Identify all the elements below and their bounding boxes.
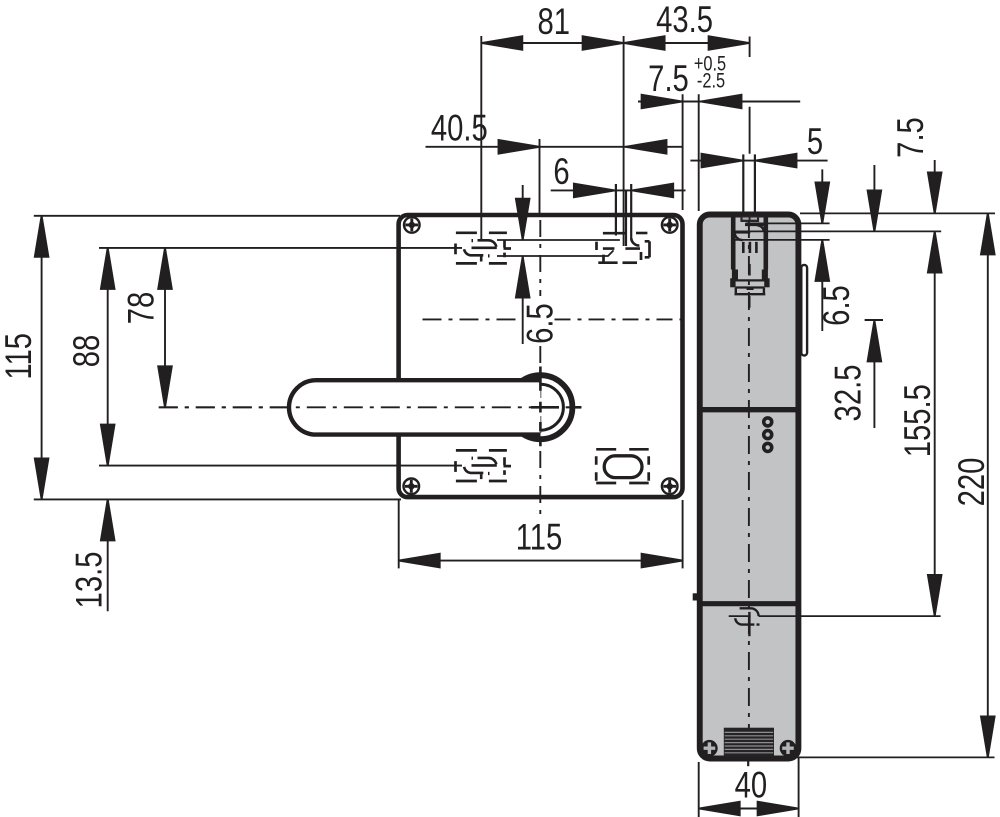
ext side top edge right	[800, 212, 995, 214]
hole symbol top-left : slot	[464, 240, 497, 261]
arrow 40 right	[758, 802, 799, 816]
svg-text:78: 78	[121, 292, 162, 325]
knob center marks	[539, 367, 542, 447]
label 5	[807, 122, 823, 163]
label -2.5	[697, 69, 725, 92]
ext 115 top	[34, 215, 400, 217]
arrow 81 right	[583, 36, 624, 50]
svg-text:6: 6	[553, 151, 569, 192]
screw top-right	[662, 217, 678, 233]
SIDE-VIEW	[693, 215, 807, 759]
dim 7.5 tol line	[638, 101, 800, 103]
hole symbol top-left : cross	[454, 244, 457, 255]
left catch tick	[693, 593, 699, 600]
ext line side-plug-center	[749, 37, 751, 154]
arrow 115 bottom	[35, 458, 49, 499]
three indicator dots	[764, 418, 772, 426]
arrow 40.5 right	[626, 140, 667, 154]
ext 88/78 top	[99, 247, 462, 249]
arrow 5 left	[702, 154, 743, 168]
svg-text:115: 115	[0, 333, 40, 380]
dim 88 line	[107, 247, 109, 466]
arrow 115b left	[399, 554, 440, 568]
dim 81/43.5 line	[481, 42, 749, 44]
arrow 43.5 left	[624, 36, 665, 50]
side centerline	[748, 220, 750, 754]
section divider lower	[700, 601, 798, 606]
arrow 40 left	[699, 802, 740, 816]
section divider upper	[700, 407, 798, 412]
svg-text:6.5: 6.5	[817, 285, 858, 326]
plug arc right	[757, 225, 764, 231]
svg-text:7.5: 7.5	[648, 59, 689, 100]
hole symbol bottom-left : dashed outline	[456, 450, 507, 481]
label 40.5	[431, 108, 488, 149]
arrow 6.5r down	[816, 182, 830, 223]
arrow 5 right	[756, 154, 797, 168]
knob outer circle	[508, 375, 572, 439]
arrow 6 left	[574, 184, 615, 198]
arrow 6.5f down	[516, 199, 530, 240]
svg-text:43.5: 43.5	[656, 0, 713, 41]
plate outline	[399, 215, 683, 497]
label 7.5 right	[891, 117, 932, 158]
dim 6.5 front line	[522, 185, 524, 344]
actuator slot cluster top-right : verticals	[615, 184, 617, 236]
label 6.5 right	[817, 285, 858, 326]
right tab	[801, 265, 807, 356]
ext plug wires	[742, 154, 744, 216]
plug line mid-left	[735, 232, 750, 234]
tick 32.5 bottom	[865, 319, 883, 321]
arrow 6 right	[632, 184, 673, 198]
screw bottom-left	[404, 479, 420, 495]
label 13.5	[69, 552, 110, 609]
arrow 7.5r/155.5 up	[928, 232, 942, 273]
FRONT-VIEW	[159, 184, 688, 521]
plug foot left	[732, 270, 738, 282]
arrow 40.5 left	[499, 140, 540, 154]
hole symbol bottom-left : cross	[454, 461, 457, 472]
release detail lines	[729, 615, 751, 617]
bottom screw right	[780, 740, 797, 757]
horizontal centerline of plate	[423, 318, 516, 320]
svg-text:81: 81	[537, 2, 570, 43]
ext line actuator-center	[623, 36, 625, 246]
dim 220 line	[987, 213, 989, 757]
svg-text:13.5: 13.5	[69, 552, 110, 609]
svg-text:40: 40	[735, 765, 768, 806]
ext plate right edge up	[682, 94, 684, 210]
arrow 115b right	[642, 554, 683, 568]
plug contact tines	[743, 242, 756, 253]
plug flange side right	[764, 278, 769, 287]
ext 115/13.5 bottom	[34, 498, 401, 500]
label 115 left	[0, 333, 40, 380]
label 6.5 front	[520, 303, 561, 344]
arrow 43.5 right	[709, 36, 750, 50]
center dash below body	[747, 760, 749, 766]
vertical centerline of plate	[539, 220, 541, 296]
svg-text:155.5: 155.5	[898, 384, 939, 457]
svg-text:115: 115	[516, 517, 563, 558]
plug flange lines	[736, 280, 765, 287]
dim 7.5/155.5 shared line	[934, 160, 936, 616]
arrow 13.5 up	[101, 499, 115, 540]
arrow 115 top	[35, 216, 49, 257]
arrow 220 bottom	[981, 716, 995, 757]
plug bottom piece	[735, 288, 766, 295]
svg-text:88: 88	[67, 335, 108, 368]
svg-text:220: 220	[952, 458, 993, 507]
dim 5 line	[690, 160, 827, 162]
arrow 88 top	[101, 248, 115, 289]
plug foot right	[762, 270, 768, 282]
release detail step	[740, 608, 759, 616]
dim 115 bottom	[398, 500, 400, 568]
label 40	[735, 765, 768, 806]
label 155.5	[898, 384, 939, 457]
dim 32.5 line	[873, 165, 875, 428]
svg-text:6.5: 6.5	[520, 303, 561, 344]
label 6	[553, 151, 569, 192]
dim 13.5 line	[107, 499, 109, 611]
plug cavity left wall	[731, 216, 736, 270]
hole symbol top-left : dashed outline	[456, 233, 507, 264]
plug bottom tick	[747, 288, 754, 290]
plug cavity right wall	[763, 216, 768, 270]
dim 40	[698, 762, 700, 817]
knob inner circle	[517, 384, 563, 430]
label 115 bottom	[516, 517, 563, 558]
bottom screw left	[701, 740, 718, 757]
screw top-left	[404, 217, 420, 233]
ext side left edge up	[698, 94, 700, 211]
label 88	[67, 335, 108, 368]
plug arc left	[735, 233, 743, 240]
ext line hole-left	[480, 36, 482, 241]
arrow 32.5 up	[868, 320, 882, 361]
handle centerline over pill	[159, 406, 582, 408]
arrow 78 top	[158, 248, 172, 289]
label 81	[537, 2, 570, 43]
dim 40.5 line	[426, 146, 684, 148]
arrow 155.5 down	[928, 575, 942, 616]
ext plug line 223	[746, 222, 830, 224]
svg-text:7.5: 7.5	[891, 117, 932, 158]
label 32.5	[828, 365, 869, 422]
hole symbol bottom-right : dashed rect	[596, 449, 649, 483]
svg-text:5: 5	[807, 122, 823, 163]
body	[700, 215, 799, 759]
plug center dash	[748, 264, 751, 276]
handle centerline	[159, 406, 582, 408]
dim 115 left line	[41, 216, 43, 500]
actuator cluster : brackets	[597, 241, 650, 262]
label 7.5 top	[648, 59, 689, 100]
arrow 88 bottom	[101, 425, 115, 466]
arrow 6.5f up	[516, 257, 530, 298]
ext plug line 231	[735, 230, 941, 232]
ext plate v-centerline up	[539, 139, 541, 213]
arrow 220 top	[981, 213, 995, 254]
ext side bottom right	[797, 756, 995, 758]
screw bottom-right	[662, 479, 678, 495]
arrow 6.5r up	[816, 240, 830, 281]
label 220	[952, 458, 993, 507]
ribbed vent block	[724, 728, 774, 757]
label +0.5	[694, 51, 726, 74]
label 78	[121, 292, 162, 325]
svg-text:32.5: 32.5	[828, 365, 869, 422]
svg-text:-2.5: -2.5	[697, 69, 725, 92]
ext plug line 239	[736, 239, 830, 241]
dim 6 line	[551, 189, 686, 191]
hole symbol bottom-right : stadium slot	[604, 456, 642, 478]
plug flange side left	[730, 278, 735, 287]
ext release line	[759, 615, 941, 617]
dim 6.5 right line	[821, 169, 823, 331]
handle pill	[289, 380, 541, 434]
arrow 7.5 left	[642, 95, 683, 109]
arrow 78 bottom	[158, 366, 172, 407]
ext 88 bottom / hole line	[99, 465, 462, 467]
actuator cluster : slot lines	[603, 232, 626, 235]
actuator cluster : arc	[631, 238, 639, 246]
svg-text:40.5: 40.5	[431, 108, 488, 149]
label 43.5	[656, 0, 713, 41]
arrow 81 left	[481, 36, 522, 50]
dim 78 line	[164, 248, 166, 407]
hole symbol bottom-left : slot	[464, 458, 497, 479]
plug top block	[740, 216, 759, 222]
arrow 32.5 down	[868, 191, 882, 232]
arrow 7.5 right	[701, 95, 742, 109]
plug center dash below	[748, 296, 750, 308]
arrow 7.5r down	[928, 172, 942, 213]
